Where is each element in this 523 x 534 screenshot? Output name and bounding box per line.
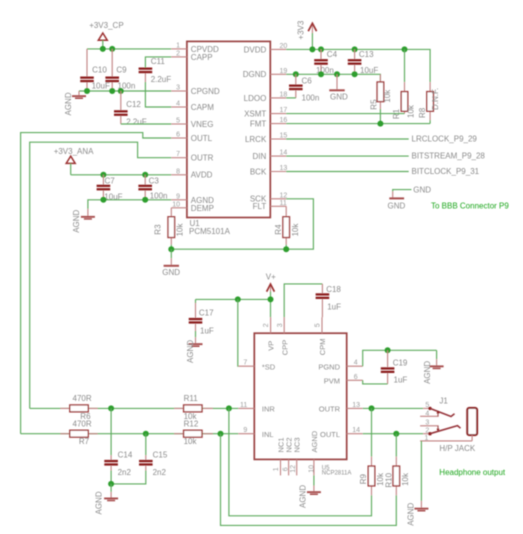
svg-text:GND: GND (413, 185, 431, 194)
wire SCK pin12 loop to GND rail (171, 199, 313, 249)
svg-text:V+: V+ (266, 272, 276, 281)
junction R4 bottom (283, 246, 289, 252)
svg-text:100n: 100n (302, 94, 320, 103)
capacitor C14 2n2 (104, 408, 133, 477)
junction R1 top (402, 46, 408, 52)
pin 15 LRCK (245, 133, 287, 144)
svg-text:GND: GND (330, 93, 348, 102)
svg-text:C18: C18 (326, 285, 341, 294)
svg-text:3: 3 (277, 323, 284, 327)
ground AGND (NCP pin10) (299, 475, 321, 508)
svg-text:C13: C13 (359, 50, 374, 59)
svg-text:470R: 470R (73, 394, 92, 403)
svg-text:1: 1 (176, 42, 180, 49)
supply +3V3_ANA (54, 147, 94, 175)
junction GND lead (334, 71, 340, 77)
svg-text:AGND: AGND (407, 502, 416, 525)
junction C6 top (293, 71, 299, 77)
junction R3 bottom (168, 246, 174, 252)
wire CAPP pin2 to C11 (145, 57, 171, 68)
svg-text:NC3: NC3 (293, 437, 302, 452)
svg-text:11: 11 (280, 200, 287, 207)
svg-text:C19: C19 (393, 359, 408, 368)
svg-text:R11: R11 (184, 394, 199, 403)
svg-text:3: 3 (176, 85, 180, 92)
svg-text:13: 13 (352, 402, 360, 409)
wire LRCK pin15 (286, 138, 409, 140)
svg-text:*SD: *SD (262, 362, 276, 371)
svg-text:AGND: AGND (72, 209, 81, 232)
supply +3V3 (296, 20, 316, 49)
svg-text:NCP2811A: NCP2811A (322, 471, 352, 477)
svg-text:AGND: AGND (299, 485, 308, 508)
svg-text:2: 2 (176, 50, 180, 57)
svg-text:4: 4 (354, 360, 358, 367)
pin 3 CPGND (171, 85, 220, 96)
pin 2 VP (263, 317, 276, 351)
svg-text:XSMT: XSMT (244, 110, 266, 119)
svg-text:CPP: CPP (280, 340, 289, 355)
wire R9 feedback loop to INR (229, 408, 372, 515)
junction C12 top (118, 88, 124, 94)
ground AGND (under C17) (186, 331, 203, 363)
svg-text:AGND: AGND (186, 340, 195, 363)
junction C4 bottom (318, 71, 324, 77)
svg-text:To BBB Connector P9: To BBB Connector P9 (431, 202, 509, 211)
svg-text:2n2: 2n2 (153, 468, 167, 477)
wire net +3V3 rail pin20 (286, 49, 430, 82)
svg-text:H/P JACK: H/P JACK (439, 444, 476, 453)
svg-text:DIN: DIN (253, 152, 267, 161)
junction C9 bottom (109, 88, 115, 94)
svg-text:R12: R12 (184, 420, 199, 429)
svg-text:10k: 10k (184, 437, 198, 446)
pin 12 SCK (250, 192, 288, 203)
svg-text:R9: R9 (359, 474, 368, 485)
svg-text:DVDD: DVDD (244, 45, 267, 54)
wire net +3V3_CP top rail (87, 48, 171, 50)
svg-text:2: 2 (263, 323, 270, 327)
svg-text:PGND: PGND (318, 362, 340, 371)
junction V+ lead (268, 296, 274, 302)
svg-text:Headphone output: Headphone output (439, 468, 506, 477)
svg-text:2.2uF: 2.2uF (151, 75, 172, 84)
resistor R6 470R (60, 394, 97, 421)
svg-text:INR: INR (262, 405, 276, 414)
svg-text:DGND: DGND (243, 70, 267, 79)
wire AGND rail under C10/C9 (79, 90, 171, 92)
svg-text:10k: 10k (383, 89, 392, 103)
svg-text:D.N.F.: D.N.F. (431, 88, 440, 110)
svg-text:100n: 100n (150, 191, 168, 200)
svg-text:+3V3_ANA: +3V3_ANA (54, 147, 94, 156)
svg-text:9: 9 (243, 427, 247, 434)
ground AGND (under C7) (72, 209, 95, 233)
svg-text:C11: C11 (151, 57, 166, 66)
svg-text:7: 7 (243, 360, 247, 367)
wire OUTR pin7 left loop down (30, 142, 172, 408)
pin 7 *SD (238, 360, 276, 372)
junction C15 top (143, 431, 149, 437)
junction C7 top (100, 172, 106, 178)
svg-text:CAPM: CAPM (191, 103, 214, 112)
capacitor C15 2n2 (139, 434, 168, 478)
svg-text:11: 11 (240, 402, 247, 409)
svg-text:INL: INL (262, 430, 274, 439)
svg-text:C10: C10 (92, 66, 107, 75)
svg-text:C15: C15 (153, 450, 168, 459)
wire R10 feedback loop to INL (221, 434, 397, 526)
svg-text:FMT: FMT (250, 120, 267, 129)
junction R10 top (393, 431, 399, 437)
svg-text:3: 3 (425, 420, 429, 427)
pin 1 CPVDD (171, 42, 219, 53)
svg-text:LRCK: LRCK (245, 135, 267, 144)
pin 10 AGND (308, 430, 319, 475)
capacitor C19 1uF (381, 350, 408, 384)
capacitor C6 100n (289, 74, 319, 102)
pin 3 CPP (277, 317, 290, 355)
junction +3V3 lead (309, 46, 315, 52)
pin 5 CPM (315, 317, 328, 355)
pin 6 OUTL (171, 132, 212, 143)
pin 20 DVDD (244, 43, 288, 54)
wire OUTR row to jack (363, 407, 423, 409)
svg-text:4: 4 (176, 101, 180, 108)
svg-text:10: 10 (308, 465, 315, 473)
junction C3 bottom (142, 197, 148, 203)
pin 7 OUTR (171, 151, 213, 162)
svg-text:R3: R3 (153, 224, 162, 235)
pin 9 INL (238, 427, 273, 439)
wire INR row (30, 407, 239, 409)
svg-text:6: 6 (176, 132, 180, 139)
ground AGND (PGND rail) (423, 350, 443, 384)
svg-text:LDOO: LDOO (244, 94, 267, 103)
svg-text:1: 1 (273, 467, 280, 471)
svg-text:DEMP: DEMP (191, 204, 214, 213)
wire BCK pin13 (286, 171, 409, 173)
supply +3V3_CP (89, 21, 123, 49)
svg-text:OUTL: OUTL (191, 134, 213, 143)
capacitor C7 10uF (97, 175, 123, 202)
capacitor C10 10uF (80, 49, 110, 91)
svg-text:AGND: AGND (64, 92, 73, 115)
junction loop R10 (218, 431, 224, 437)
resistor R3 10k (153, 208, 184, 249)
svg-text:BCK: BCK (250, 167, 267, 176)
svg-text:C3: C3 (149, 176, 160, 185)
svg-text:5: 5 (315, 323, 322, 327)
wire C6 to LDOO pin18 (286, 97, 296, 99)
svg-text:1uF: 1uF (327, 302, 341, 311)
junction C3 top (142, 172, 148, 178)
wire jack pin1 to AGND (420, 441, 422, 501)
svg-text:BITSTREAM_P9_28: BITSTREAM_P9_28 (412, 152, 486, 161)
svg-text:PCM5101A: PCM5101A (189, 227, 231, 236)
svg-text:J1: J1 (439, 397, 448, 406)
connector J1 headphone jack (420, 397, 477, 454)
svg-text:CPM: CPM (318, 339, 327, 356)
pin 16 FMT (250, 117, 288, 128)
pin 12 NC3 (290, 437, 302, 475)
svg-text:C17: C17 (199, 309, 214, 318)
svg-text:10uF: 10uF (92, 82, 110, 91)
svg-text:7: 7 (176, 151, 180, 158)
wire CPP loop to C18 (284, 284, 322, 317)
svg-text:2n2: 2n2 (118, 468, 132, 477)
ground GND (under R3) (162, 249, 180, 277)
junction +3V3_CP lead (100, 46, 106, 52)
pin 11 INR (238, 402, 275, 414)
junction C19 top (385, 347, 391, 353)
svg-text:+3V3_CP: +3V3_CP (89, 21, 123, 30)
resistor R12 10k (174, 420, 213, 446)
wire OUTL pin6 left loop down (21, 133, 172, 434)
svg-text:6: 6 (282, 467, 289, 471)
junction C14 bottom (108, 481, 114, 487)
ground AGND (jack) (407, 501, 429, 526)
svg-text:VNEG: VNEG (191, 120, 214, 129)
resistor R7 470R (60, 420, 97, 446)
pin 5 VNEG (171, 118, 213, 129)
svg-text:FLT: FLT (253, 202, 267, 211)
junction R5 bottom (377, 121, 383, 127)
svg-text:C6: C6 (302, 77, 313, 86)
wire V+ rail (196, 299, 271, 317)
capacitor C12 2.2uF (114, 91, 147, 127)
svg-text:CAPP: CAPP (191, 53, 213, 62)
pin 14 OUTL (320, 427, 363, 439)
svg-text:C9: C9 (116, 66, 127, 75)
pin 6b NC2 (282, 437, 293, 475)
svg-text:OUTL: OUTL (320, 430, 340, 439)
junction loop R9 (226, 405, 232, 411)
svg-text:6: 6 (354, 374, 358, 381)
svg-text:14: 14 (352, 427, 360, 434)
resistor R4 10k (274, 206, 300, 249)
svg-text:AGND: AGND (423, 361, 432, 384)
svg-text:1: 1 (424, 435, 428, 442)
pin 13 OUTR (319, 402, 363, 414)
resistor R5 10k (369, 74, 392, 123)
pin 14 DIN (253, 150, 288, 161)
junction C4 top (318, 46, 324, 52)
svg-text:OUTR: OUTR (319, 405, 341, 414)
wire FMT pin16 to R8 (286, 123, 430, 125)
ground GND (BBB connector) (388, 191, 406, 210)
svg-text:2.2uF: 2.2uF (126, 118, 147, 127)
svg-text:1uF: 1uF (200, 326, 214, 335)
svg-text:R7: R7 (79, 437, 90, 446)
svg-text:GND: GND (162, 268, 180, 277)
resistor R1 10k (392, 49, 415, 119)
supply V+ (266, 272, 276, 299)
ground GND (DGND rail) (329, 74, 348, 101)
svg-text:GND: GND (388, 202, 406, 211)
junction C9 top (109, 46, 115, 52)
capacitor C9 100n (105, 49, 135, 91)
resistor R11 10k (174, 394, 213, 421)
junction SD drop (235, 296, 241, 302)
ground AGND (under C14) (94, 484, 118, 515)
pin 4 PGND (318, 360, 362, 372)
svg-text:12: 12 (290, 465, 297, 473)
wire C12 to VNEG pin5 (121, 123, 172, 125)
pin 8 AVDD (171, 168, 212, 179)
pin 13 BCK (250, 165, 288, 176)
svg-text:4: 4 (425, 410, 429, 417)
wire AVDD rail (71, 174, 172, 176)
junction C13 top (352, 46, 358, 52)
svg-text:AGND: AGND (94, 491, 103, 514)
svg-text:C12: C12 (126, 100, 141, 109)
junction C13 bottom (352, 71, 358, 77)
capacitor C4 100n (314, 49, 337, 75)
junction C7 bottom (100, 197, 106, 203)
svg-text:AVDD: AVDD (191, 171, 213, 180)
svg-text:10k: 10k (291, 223, 300, 237)
wire AGND rail pin9 (88, 200, 171, 209)
pin 18 LDOO (244, 91, 288, 102)
svg-text:R10: R10 (384, 472, 393, 487)
pin 2 CAPP (171, 50, 212, 61)
svg-text:470R: 470R (73, 420, 92, 429)
svg-text:C7: C7 (105, 176, 116, 185)
resistor R8 D.N.F. (418, 82, 440, 124)
capacitor C3 100n (138, 175, 167, 201)
svg-text:10k: 10k (401, 472, 410, 486)
wire DIN pin14 (286, 155, 409, 157)
pin 6 PVM (324, 374, 363, 386)
IC U5 NCP2811A body (254, 333, 351, 477)
wire C15 to C14 bottom (111, 471, 146, 484)
svg-text:C4: C4 (327, 50, 338, 59)
svg-text:8: 8 (176, 168, 180, 175)
capacitor C11 2.2uF (139, 57, 172, 84)
resistor R9 10k (359, 408, 385, 495)
pin 10 DEMP (171, 201, 214, 213)
svg-text:9: 9 (176, 193, 180, 200)
svg-text:1uF: 1uF (394, 375, 408, 384)
IC U1 PCM5101A body (187, 41, 270, 236)
svg-text:AGND: AGND (310, 430, 319, 452)
wire OUTL row to jack (363, 433, 423, 435)
junction C10 bottom (84, 88, 90, 94)
svg-text:+3V3: +3V3 (296, 20, 305, 39)
svg-text:PVM: PVM (324, 377, 340, 386)
ground AGND (top left) (64, 91, 86, 116)
pin 9 AGND (171, 193, 214, 205)
junction C14 top (108, 405, 114, 411)
pin 17 XSMT (244, 107, 287, 118)
wire V+ to *SD pin7 (237, 299, 240, 366)
wire PGND pin4 rail (363, 350, 437, 366)
junction R9 top (369, 405, 375, 411)
svg-text:R5: R5 (369, 99, 378, 110)
svg-text:10: 10 (172, 201, 180, 208)
wire PVM pin6 to C19 (363, 380, 388, 384)
svg-text:BITCLOCK_P9_31: BITCLOCK_P9_31 (412, 167, 480, 176)
resistor R10 10k (384, 434, 410, 496)
svg-text:C14: C14 (118, 450, 133, 459)
wire DGND rail pin19 (286, 74, 380, 82)
wire INL row (21, 433, 239, 435)
svg-text:LRCLOCK_P9_29: LRCLOCK_P9_29 (412, 135, 478, 144)
capacitor C18 1uF (316, 284, 342, 317)
svg-text:R8: R8 (418, 107, 427, 118)
svg-text:OUTR: OUTR (191, 154, 214, 163)
wire C11 to CAPM pin4 (145, 82, 171, 107)
capacitor C17 1uF (189, 299, 214, 335)
svg-text:R4: R4 (274, 224, 283, 235)
wire XSMT pin17 to R1 (286, 113, 404, 115)
wire GND stub net (393, 190, 412, 192)
capacitor C13 10uF (348, 49, 379, 75)
svg-text:10k: 10k (176, 223, 185, 237)
svg-text:5: 5 (176, 118, 180, 125)
pin 4 CAPM (171, 101, 214, 112)
pin 19 DGND (243, 68, 288, 79)
svg-text:CPGND: CPGND (191, 87, 220, 96)
pin 1 NC1 (273, 437, 285, 475)
svg-text:10k: 10k (406, 104, 415, 118)
svg-text:VP: VP (267, 341, 276, 351)
pin 11 FLT (253, 200, 287, 211)
